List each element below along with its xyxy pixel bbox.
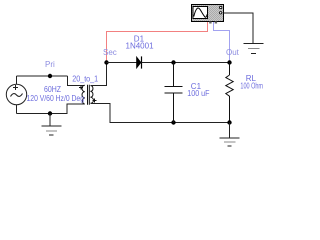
svg-text:120 V/60 Hz/0 Deg: 120 V/60 Hz/0 Deg <box>27 94 85 103</box>
wire top rail Sec to diode <box>107 62 137 64</box>
wire primary bottom jog to source bottom <box>17 104 85 113</box>
node junction dot on source bottom wire <box>48 111 52 115</box>
wire secondary bottom to bottom rail <box>91 103 230 122</box>
svg-text:1N4001: 1N4001 <box>126 42 155 51</box>
ground at scope <box>244 44 264 54</box>
svg-text:100 Ohm: 100 Ohm <box>240 82 263 91</box>
node junction dot RL bottom <box>227 120 231 124</box>
wire channel B probe (blue) <box>214 22 230 63</box>
node Sec junction dot <box>104 60 108 64</box>
ground at load <box>220 123 240 147</box>
ground at source bottom <box>42 114 62 136</box>
diode D1 <box>137 56 142 68</box>
transformer T1 <box>79 85 97 105</box>
AC source V1 <box>6 76 26 114</box>
svg-text:Sec: Sec <box>103 48 117 57</box>
svg-text:100 uF: 100 uF <box>187 89 209 98</box>
node Pri junction dot <box>48 74 52 78</box>
wire top of primary loop <box>17 75 68 77</box>
node Out junction dot <box>227 60 231 64</box>
wire jog down to transformer primary top <box>68 76 85 85</box>
svg-text:Out: Out <box>226 48 240 57</box>
svg-text:20_to_1: 20_to_1 <box>72 75 98 84</box>
wire top rail diode to Out <box>142 62 230 64</box>
oscilloscope XSC1 <box>192 5 224 24</box>
svg-text:Pri: Pri <box>45 60 55 69</box>
wire secondary top to Sec node <box>91 63 107 86</box>
resistor RL <box>226 63 233 123</box>
capacitor C1 <box>165 63 183 123</box>
svg-text:60HZ: 60HZ <box>44 85 61 94</box>
node junction dot C1 bottom <box>171 120 175 124</box>
node junction dot C1 top <box>171 60 175 64</box>
wire scope to ground <box>224 13 254 44</box>
wire channel A probe (red) <box>107 22 208 63</box>
